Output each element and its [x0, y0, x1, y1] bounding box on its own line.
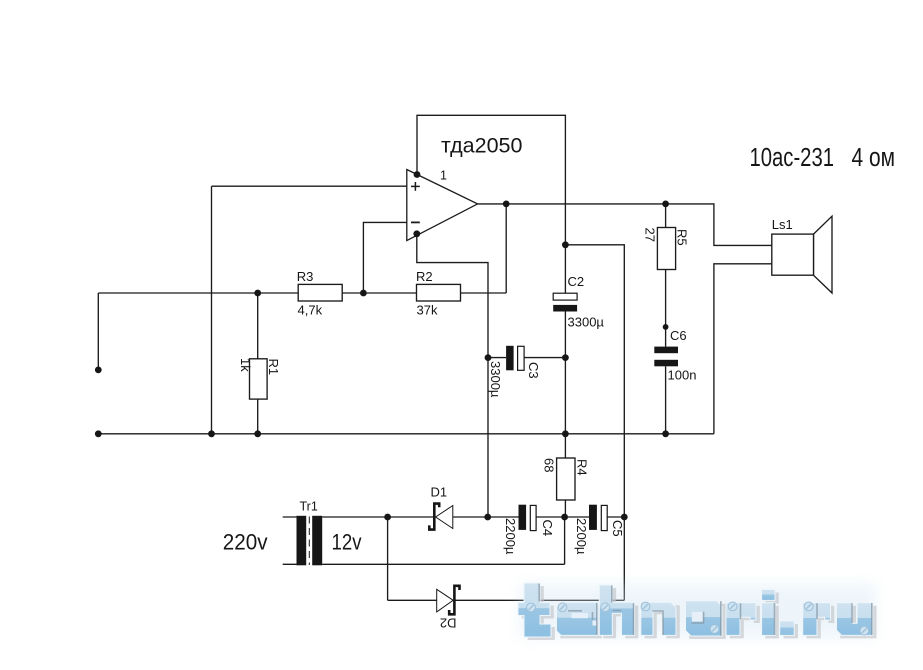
svg-text:68: 68	[542, 458, 557, 472]
svg-text:D1: D1	[431, 485, 448, 500]
svg-text:10ас-231: 10ас-231	[750, 144, 835, 172]
svg-text:C6: C6	[670, 328, 687, 343]
svg-text:3300µ: 3300µ	[488, 361, 503, 398]
svg-text:C3: C3	[526, 362, 541, 379]
svg-text:4 ом: 4 ом	[852, 144, 896, 172]
svg-text:4,7k: 4,7k	[298, 303, 323, 318]
svg-text:3300µ: 3300µ	[568, 315, 605, 330]
svg-text:1k: 1k	[238, 358, 253, 372]
svg-text:R2: R2	[416, 269, 433, 284]
svg-text:100n: 100n	[668, 368, 697, 383]
svg-text:D2: D2	[440, 616, 457, 631]
svg-text:C5: C5	[610, 520, 625, 537]
svg-text:Tr1: Tr1	[300, 500, 318, 514]
svg-text:тда2050: тда2050	[441, 134, 523, 158]
svg-text:R5: R5	[675, 229, 690, 246]
svg-text:R3: R3	[297, 269, 314, 284]
svg-text:C2: C2	[568, 274, 585, 289]
svg-text:C4: C4	[540, 520, 555, 537]
svg-text:2200µ: 2200µ	[503, 518, 518, 555]
svg-text:Ls1: Ls1	[772, 217, 793, 232]
svg-text:220v: 220v	[223, 530, 268, 555]
svg-text:27: 27	[643, 228, 658, 242]
svg-text:1: 1	[440, 169, 447, 183]
svg-text:12v: 12v	[332, 530, 363, 555]
svg-text:2200µ: 2200µ	[574, 518, 589, 555]
svg-text:R1: R1	[266, 359, 281, 376]
svg-text:R4: R4	[575, 459, 590, 476]
svg-text:37k: 37k	[417, 303, 438, 318]
